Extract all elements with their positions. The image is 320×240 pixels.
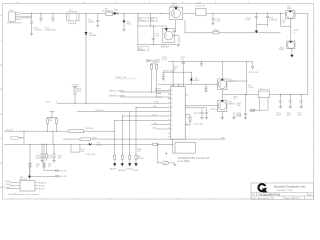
- svg-text:Date: Friday, April 01, 201: Date: Friday, April 01, 2011: [252, 197, 275, 200]
- ground arrow PC34: [255, 31, 258, 34]
- ground NTC: [173, 164, 176, 166]
- comment wire y72.2: [163, 71, 191, 73]
- net arrow drop4: [134, 163, 137, 166]
- svg-text:100: 100: [174, 68, 177, 70]
- PU1 right pin stubs: [185, 84, 188, 124]
- wire PQ1 to PQ2: [290, 18, 292, 41]
- main rail segment F + right drop: [295, 13, 308, 94]
- svg-text:201209(2A): 201209(2A): [68, 22, 77, 25]
- IC top feed wire 3 with cap: [182, 61, 185, 86]
- wire y139.1: [63, 138, 225, 140]
- svg-text:100K_1%: 100K_1%: [36, 157, 43, 159]
- transistor PQ1: [286, 11, 295, 19]
- capacitor PC18 on gate: [204, 84, 207, 90]
- svg-text:18: 18: [171, 98, 173, 100]
- bootstrap wire y81: [227, 80, 247, 82]
- wire VIN left y131.2: [4, 130, 69, 132]
- wire net at y26: [138, 25, 166, 27]
- svg-text:SI4435BDY: SI4435BDY: [170, 5, 180, 7]
- resistor right pins: [189, 115, 191, 125]
- NTC thermistor: [162, 161, 169, 165]
- PU2 right pins: [35, 183, 39, 189]
- offpage circle 1: [55, 175, 57, 177]
- wire PQ2 source down: [291, 49, 293, 55]
- zone ticks left: [2, 28, 4, 175]
- wire box drop left: [137, 13, 139, 44]
- wire REGN pin: [185, 114, 190, 116]
- svg-text:+5VSUS: +5VSUS: [5, 184, 11, 186]
- svg-text:SMBCLK_CHARGE: SMBCLK_CHARGE: [109, 89, 125, 92]
- capacitor PC34: [255, 13, 258, 24]
- svg-text:13: 13: [171, 120, 173, 122]
- svg-text:BAT54C: BAT54C: [137, 157, 144, 160]
- signal drop 4: [135, 107, 137, 155]
- sense resistor PR19: [196, 8, 206, 15]
- capacitor PC19: [244, 95, 247, 118]
- top net line y61.3: [168, 60, 247, 62]
- svg-text:10UF: 10UF: [297, 115, 301, 117]
- capacitor PC15: [200, 61, 203, 67]
- wire VREF pin: [185, 124, 190, 126]
- transistor PQ2: [287, 41, 295, 49]
- svg-text:BAT54: BAT54: [97, 144, 102, 147]
- svg-text:0.1UF: 0.1UF: [237, 115, 242, 117]
- svg-text:SI4835: SI4835: [279, 49, 284, 51]
- wire PD1 branch vertical: [85, 13, 87, 103]
- resistor PR21 vertical: [74, 87, 76, 104]
- svg-text:10UF/25V: 10UF/25V: [138, 49, 145, 51]
- transistor PQ5: [218, 79, 227, 90]
- main rail segment E: [206, 12, 286, 14]
- svg-text:tie to GND: tie to GND: [178, 159, 190, 163]
- svg-text:PR27 33: PR27 33: [194, 113, 201, 115]
- drops under y144.3: [42, 144, 54, 154]
- signal drop 2: [121, 116, 123, 155]
- capacitor PC9: [266, 13, 269, 24]
- ground PC23: [300, 107, 303, 109]
- svg-text:1UF: 1UF: [81, 151, 84, 153]
- resistor pair PR25: [48, 112, 57, 132]
- svg-text:POWER JACK_3P: POWER JACK_3P: [7, 22, 23, 25]
- gate loop PQ1: [281, 13, 291, 26]
- svg-text:CHG_EN: CHG_EN: [126, 168, 133, 170]
- zone ticks right: [313, 28, 315, 175]
- decoupling pair wire: [185, 107, 206, 109]
- svg-text:0.1UF/50V: 0.1UF/50V: [34, 30, 43, 32]
- ground PL2 side: [232, 117, 235, 119]
- svg-text:PR21: PR21: [46, 102, 50, 104]
- svg-text:0.1UF: 0.1UF: [162, 59, 167, 61]
- capacitor PC23: [300, 95, 303, 107]
- capacitor PC8: [152, 26, 155, 45]
- ground PC31: [205, 117, 208, 119]
- capacitor PC21: [279, 95, 282, 107]
- wire pin row4: [136, 106, 168, 108]
- svg-text:ACOK#: ACOK#: [39, 187, 45, 190]
- svg-text:PR30: PR30: [58, 156, 62, 158]
- svg-text:PROJECT : SS1: PROJECT : SS1: [277, 190, 294, 192]
- svg-text:16: 16: [171, 107, 173, 109]
- svg-text:PR17: PR17: [48, 164, 52, 166]
- svg-text:Sheet 13 of 36: Sheet 13 of 36: [285, 197, 297, 200]
- wire pin ACDET: [155, 89, 168, 91]
- svg-text:PJ1: PJ1: [9, 10, 12, 12]
- power flag pullup bar: [151, 60, 157, 62]
- svg-text:ACDET: ACDET: [155, 88, 161, 91]
- ground PC22: [289, 107, 292, 109]
- svg-text:19: 19: [171, 94, 173, 96]
- PU1 left pin stubs: [168, 90, 171, 136]
- svg-text:0.1UF: 0.1UF: [246, 20, 251, 22]
- svg-text:SS24: SS24: [114, 10, 118, 12]
- NTC branch: [157, 144, 175, 163]
- wire pin row6: [122, 115, 167, 117]
- capacitor PC5: [39, 13, 42, 22]
- offpage circle 2: [55, 170, 57, 172]
- wire PQ4 gate drop: [165, 26, 167, 31]
- wire offpage to bus: [18, 131, 24, 144]
- diode PD4: [190, 72, 193, 84]
- Quanta logo: [258, 184, 267, 193]
- svg-text:+3VSUS: +3VSUS: [72, 85, 78, 87]
- ground PC21: [279, 107, 282, 109]
- svg-text:HAT2165: HAT2165: [228, 80, 235, 83]
- drop stubs to arrows: [115, 159, 136, 163]
- label box PC10: [137, 47, 148, 51]
- svg-text:4.7UH: 4.7UH: [248, 87, 254, 89]
- svg-text:+VIN_S20: +VIN_S20: [5, 129, 13, 131]
- ground PC3: [96, 26, 99, 28]
- net arrow drop2: [121, 163, 124, 166]
- ground left cap: [162, 79, 165, 81]
- svg-text:0: 0: [56, 102, 57, 104]
- resistor PR24 box: [69, 130, 84, 133]
- svg-text:0.1UF: 0.1UF: [216, 21, 221, 23]
- svg-text:SI4435BDY: SI4435BDY: [161, 47, 171, 49]
- resistor on AC_IN2: [43, 163, 45, 167]
- svg-text:AC_IN1: AC_IN1: [61, 169, 67, 172]
- junction dots rail: [31, 13, 281, 45]
- wire PQ5 gate: [158, 83, 218, 85]
- svg-text:PC24 0.1UF: PC24 0.1UF: [86, 154, 95, 156]
- svg-text:10: 10: [168, 128, 170, 130]
- diode PD3 vertical: [123, 13, 126, 29]
- diode PD2 on rail: [113, 12, 118, 15]
- sense resistor PR32: [258, 91, 269, 97]
- ground PC30: [200, 117, 203, 119]
- signal drop 3: [129, 112, 131, 156]
- wire pin row8 short: [151, 124, 168, 126]
- net arrow drop1: [113, 163, 116, 166]
- wire pin3: [21, 15, 32, 17]
- svg-text:PR32 0.01_1%: PR32 0.01_1%: [259, 89, 271, 91]
- capacitor PC28: [30, 18, 33, 33]
- capacitor PC16: [211, 13, 214, 23]
- drop resistors: [114, 155, 116, 159]
- wire PQ6 gate: [185, 105, 218, 107]
- wire gate net y32.8: [185, 20, 281, 33]
- label box PC6: [139, 17, 149, 22]
- net arrow below PQ2: [290, 55, 293, 58]
- svg-text:10UF/25V: 10UF/25V: [269, 20, 277, 22]
- wire ACIN y103: [57, 102, 168, 104]
- svg-text:AC_IN2: AC_IN2: [61, 175, 67, 178]
- svg-text:0.1UF/50V: 0.1UF/50V: [139, 20, 146, 22]
- svg-text:PC7: PC7: [152, 18, 155, 20]
- ground PC28: [30, 34, 33, 36]
- power flag pair: [49, 111, 55, 113]
- svg-text:PR20 4.7K: PR20 4.7K: [96, 110, 105, 112]
- PU2 left pins: [17, 183, 21, 189]
- svg-text:PR29: PR29: [36, 156, 40, 158]
- power flag pullups: [146, 60, 152, 62]
- capacitor PC17 top right: [251, 61, 254, 69]
- svg-text:220UF/25V(C): 220UF/25V(C): [45, 30, 56, 32]
- IC PU1 body: [170, 87, 185, 140]
- wire PQ4 to ground: [173, 36, 179, 45]
- svg-text:PU1: PU1: [171, 85, 175, 87]
- offpage wire AC_IN2: [44, 144, 55, 170]
- PU2 top wire: [29, 168, 31, 176]
- svg-text:0.1UF: 0.1UF: [155, 36, 160, 38]
- resistor on AC_IN1: [29, 163, 31, 167]
- diode PD6: [89, 143, 91, 146]
- IC bottom tie: [173, 139, 176, 153]
- ground drops: [41, 161, 56, 163]
- zone ticks bottom: [12, 198, 243, 200]
- svg-text:12: 12: [171, 124, 173, 126]
- wire PROCHOT y111.7: [77, 111, 168, 113]
- ground PQ6: [221, 118, 224, 120]
- svg-text:PR16: PR16: [36, 164, 40, 166]
- resistor PR18 box: [80, 138, 91, 141]
- wire pin row9 short: [156, 128, 168, 130]
- wire cap tie: [256, 25, 267, 31]
- inductor PL2 line: [246, 61, 248, 94]
- svg-text:SMBDATA_CHARGE: SMBDATA_CHARGE: [109, 94, 126, 97]
- wire gnd bus y44.7: [138, 44, 176, 46]
- ground PQ4 bus: [176, 45, 179, 47]
- plus mark: [165, 153, 167, 155]
- transistor PQ4: [162, 29, 174, 43]
- ground PC19: [244, 118, 247, 120]
- title block divider rows: [251, 192, 314, 199]
- svg-text:CELL: CELL: [153, 106, 157, 108]
- diode PD1: [85, 32, 88, 35]
- svg-text:1UF/50V: 1UF/50V: [88, 22, 96, 24]
- svg-text:20: 20: [171, 90, 173, 92]
- part on y144.3 right: [153, 143, 158, 145]
- ground PC18: [205, 91, 208, 93]
- svg-text:SS34: SS34: [126, 23, 130, 25]
- kelvin loop left: [250, 97, 269, 110]
- title block outline: [251, 183, 314, 199]
- svg-text:1UF: 1UF: [152, 20, 155, 22]
- IC top feed wire 2: [178, 84, 180, 87]
- main rail segment C: [112, 12, 169, 14]
- pullup resistors SMB: [152, 61, 157, 97]
- transistor PQ6: [218, 100, 227, 111]
- capacitor PC31: [205, 108, 208, 117]
- svg-text:FUSE/4A/32V: FUSE/4A/32V: [103, 10, 114, 13]
- component box right of y144.3: [71, 144, 80, 152]
- wire y131.2 right: [84, 120, 115, 131]
- svg-text:11: 11: [171, 129, 173, 131]
- kelvin resistor: [251, 109, 255, 111]
- svg-text:17: 17: [171, 103, 173, 105]
- svg-text:Charger(BQ24745): Charger(BQ24745): [258, 194, 280, 197]
- border frame: [3, 4, 314, 200]
- connect y131 to y144: [52, 131, 54, 144]
- svg-text:PR33 2: PR33 2: [213, 30, 219, 32]
- capacitor PC1: [51, 13, 54, 22]
- IC PU2 body: [20, 181, 35, 192]
- PJ1 pin stubs: [15, 13, 21, 20]
- svg-text:AC_IN2: AC_IN2: [39, 184, 45, 187]
- ground stub PL2 side: [233, 112, 235, 117]
- pin numbers PU1 left: [168, 89, 173, 131]
- fuse PF1: [106, 12, 113, 16]
- transistor PQ3: [170, 7, 183, 20]
- wire PQ3 drain to PQ4: [172, 20, 176, 32]
- zone ticks top: [12, 3, 309, 5]
- svg-text:ACAV_IN: ACAV_IN: [39, 181, 47, 184]
- wire merge vertical: [31, 13, 33, 18]
- wire y144.3: [4, 143, 173, 145]
- resistor PR33: [213, 32, 219, 34]
- svg-text:+3VSUS: +3VSUS: [5, 181, 11, 183]
- svg-text:PLF201209H: PLF201209H: [67, 11, 78, 13]
- svg-text:10: 10: [293, 32, 295, 34]
- svg-text:3G_OFF#: 3G_OFF#: [3, 187, 10, 189]
- power flag PR21: [72, 86, 79, 88]
- PU2 input arrow: [28, 176, 31, 179]
- svg-text:PC6: PC6: [139, 18, 142, 20]
- wire pin row7: [115, 119, 168, 121]
- junction dots middle: [24, 61, 302, 177]
- svg-text:2: 2: [93, 140, 94, 142]
- output rail y94.6: [222, 94, 307, 96]
- thermal pad box: [175, 142, 195, 153]
- wire SMBDATA: [121, 96, 171, 98]
- cap on left branch: [162, 72, 165, 78]
- connector PJ1: [9, 12, 15, 21]
- svg-text:33: 33: [234, 98, 236, 100]
- offpage wire AC_IN1: [30, 144, 55, 176]
- svg-text:PR24 10K: PR24 10K: [86, 128, 95, 130]
- label box PC7: [151, 17, 157, 22]
- svg-text:PC30 1UF: PC30 1UF: [210, 109, 218, 111]
- svg-text:Title: Title: [252, 193, 255, 196]
- wire pin1 to rail: [21, 12, 32, 14]
- svg-text:10UF: 10UF: [287, 115, 291, 117]
- svg-text:PC17 0.1UF: PC17 0.1UF: [249, 72, 258, 74]
- svg-text:0.1UF: 0.1UF: [276, 115, 281, 117]
- svg-text:Quanta Computer Inc.: Quanta Computer Inc.: [274, 184, 306, 188]
- svg-text:14: 14: [171, 116, 173, 118]
- ground PD3: [123, 30, 126, 32]
- capacitor PC22: [289, 95, 292, 107]
- signal drop 1: [114, 120, 116, 155]
- svg-text:PC26: PC26: [48, 156, 52, 158]
- svg-text:PC32 0.1UF: PC32 0.1UF: [194, 123, 203, 125]
- wire box drop right: [149, 13, 151, 26]
- phase chain vertical: [221, 61, 223, 117]
- svg-text:0.01_1%_1W: 0.01_1%_1W: [195, 5, 206, 7]
- net arrow drop3: [128, 163, 131, 166]
- zone numerals left: [0, 15, 2, 189]
- net labels PU1 left column: [153, 92, 164, 130]
- wire SMBCLK: [121, 91, 171, 93]
- ground PC16: [212, 23, 215, 25]
- wire pin4: [21, 17, 32, 19]
- filter PL1: [67, 13, 79, 21]
- svg-text:1UF: 1UF: [281, 22, 284, 24]
- capacitor PC30: [200, 108, 203, 117]
- svg-text:15: 15: [171, 111, 173, 113]
- main rail segment A: [32, 12, 67, 14]
- svg-text:1UF: 1UF: [181, 59, 184, 61]
- main rail segment D: [183, 12, 196, 14]
- svg-text:SS14HE3: SS14HE3: [89, 35, 96, 37]
- capacitor PC3: [96, 13, 99, 25]
- svg-text:BAT54: BAT54: [194, 79, 199, 82]
- svg-text:APL3510: APL3510: [20, 178, 27, 181]
- main rail segment B: [79, 12, 106, 14]
- svg-text:SI4435: SI4435: [287, 8, 292, 10]
- svg-text:HAT2165: HAT2165: [228, 102, 235, 105]
- IC top feed wire 1: [172, 61, 174, 86]
- offpage symbol left: [11, 136, 18, 139]
- zone numerals top: [17, 2, 250, 4]
